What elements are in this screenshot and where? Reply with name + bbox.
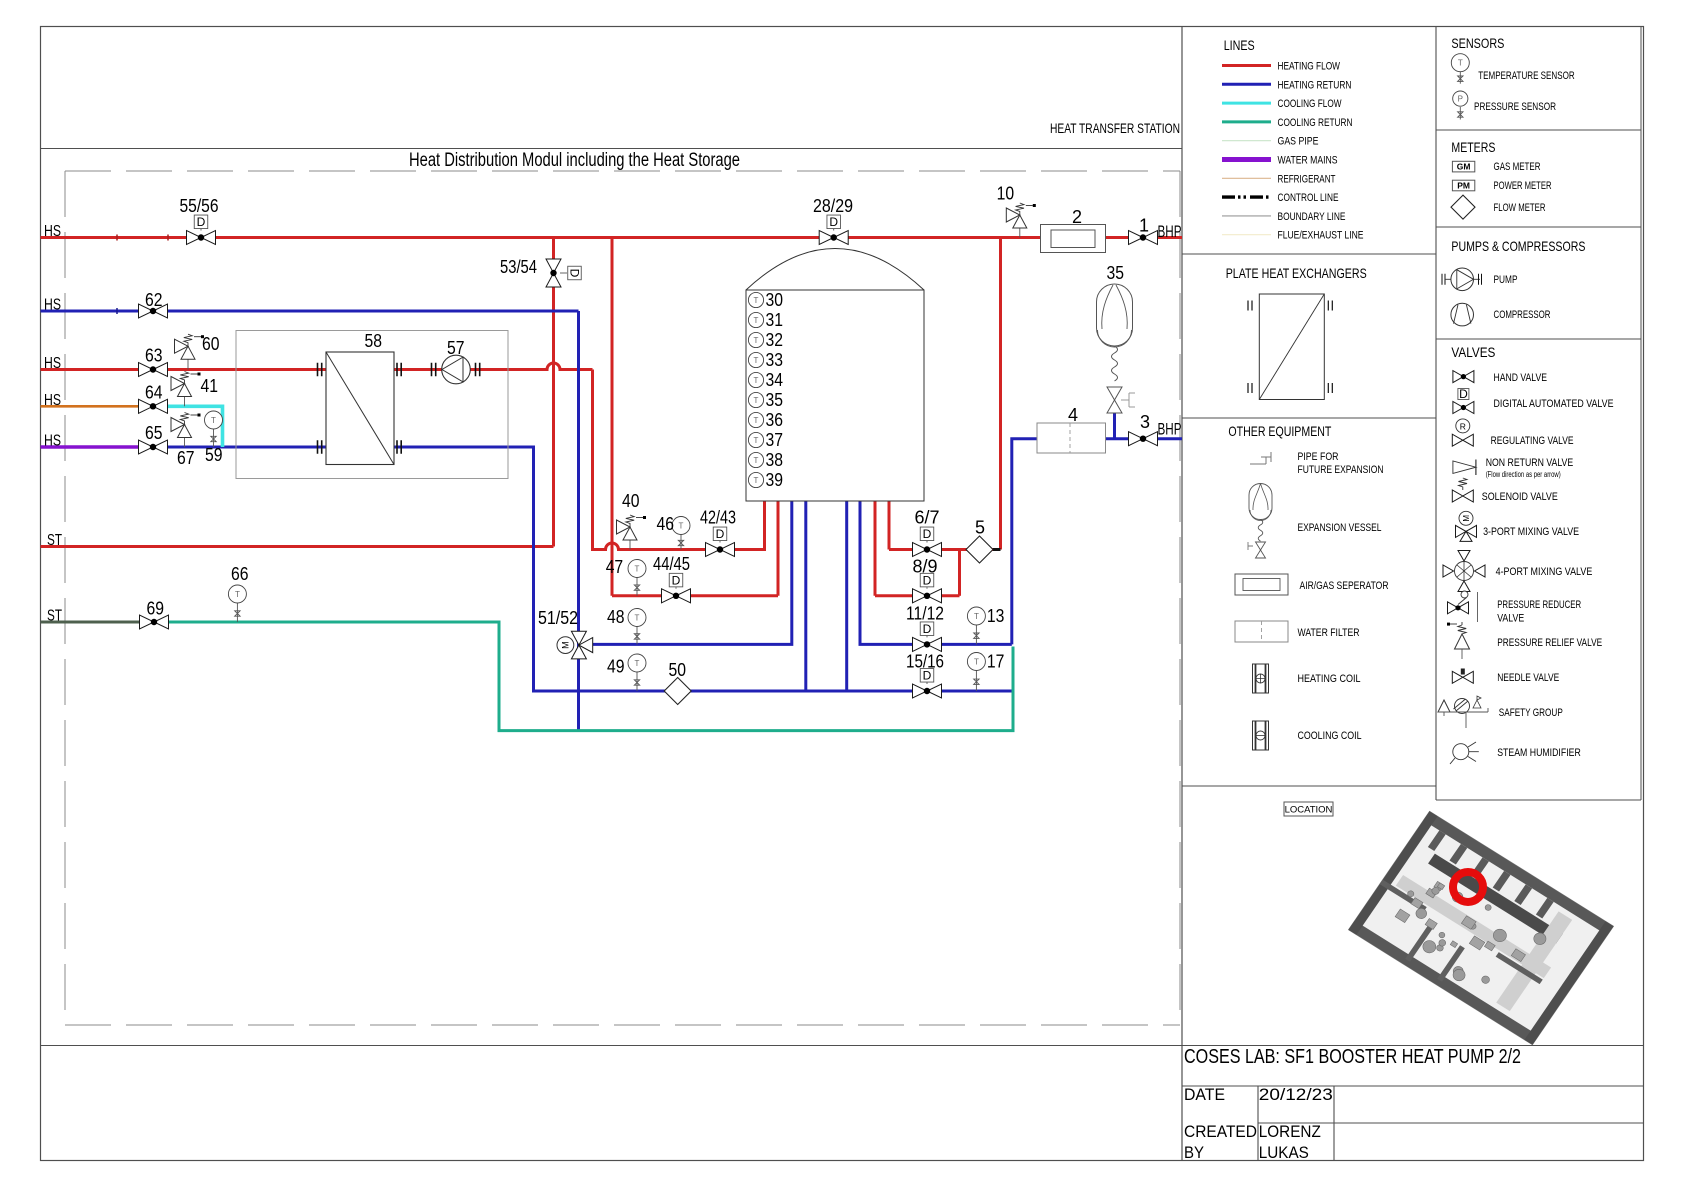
svg-text:PLATE HEAT EXCHANGERS: PLATE HEAT EXCHANGERS (1226, 265, 1367, 281)
svg-text:33: 33 (766, 350, 784, 370)
svg-text:28/29: 28/29 (813, 196, 853, 216)
svg-text:T: T (211, 416, 216, 425)
svg-text:COOLING FLOW: COOLING FLOW (1278, 98, 1342, 110)
svg-text:65: 65 (145, 423, 163, 443)
svg-text:SENSORS: SENSORS (1451, 35, 1504, 51)
svg-text:T: T (754, 476, 759, 485)
svg-text:COMPRESSOR: COMPRESSOR (1494, 309, 1551, 321)
svg-text:46: 46 (657, 514, 675, 534)
svg-text:66: 66 (231, 564, 249, 584)
svg-text:SOLENOID VALVE: SOLENOID VALVE (1482, 491, 1558, 503)
svg-text:57: 57 (447, 338, 465, 358)
svg-text:VALVES: VALVES (1451, 344, 1495, 360)
svg-text:64: 64 (145, 383, 163, 403)
svg-text:(Flow direction as per arrow): (Flow direction as per arrow) (1486, 470, 1561, 479)
svg-text:HEATING COIL: HEATING COIL (1298, 673, 1361, 685)
svg-text:35: 35 (1107, 263, 1125, 283)
svg-text:20/12/23: 20/12/23 (1259, 1085, 1333, 1104)
svg-text:47: 47 (606, 557, 624, 577)
svg-text:T: T (754, 336, 759, 345)
svg-text:34: 34 (766, 370, 784, 390)
svg-text:GAS PIPE: GAS PIPE (1278, 136, 1319, 148)
svg-text:COSES LAB: SF1 BOOSTER HEAT PU: COSES LAB: SF1 BOOSTER HEAT PUMP 2/2 (1184, 1046, 1521, 1068)
svg-text:D: D (567, 269, 581, 278)
svg-text:38: 38 (766, 450, 784, 470)
svg-text:BY: BY (1184, 1143, 1204, 1162)
svg-text:PRESSURE REDUCER: PRESSURE REDUCER (1497, 599, 1581, 611)
svg-text:LINES: LINES (1224, 37, 1255, 53)
svg-text:2: 2 (1072, 207, 1082, 227)
svg-text:T: T (754, 456, 759, 465)
svg-text:P: P (1458, 95, 1463, 104)
svg-text:PM: PM (1457, 181, 1470, 191)
svg-text:T: T (754, 376, 759, 385)
svg-text:HS: HS (44, 355, 61, 372)
svg-text:BOUNDARY LINE: BOUNDARY LINE (1278, 211, 1346, 223)
svg-text:PUMPS & COMPRESSORS: PUMPS & COMPRESSORS (1451, 238, 1585, 254)
svg-text:41: 41 (201, 376, 219, 396)
svg-text:36: 36 (766, 410, 784, 430)
svg-text:T: T (754, 296, 759, 305)
svg-text:GAS METER: GAS METER (1494, 161, 1541, 173)
svg-text:HAND VALVE: HAND VALVE (1494, 372, 1548, 384)
svg-text:37: 37 (766, 430, 784, 450)
svg-text:T: T (974, 612, 979, 621)
svg-text:3-PORT MIXING VALVE: 3-PORT MIXING VALVE (1483, 526, 1579, 538)
svg-text:50: 50 (669, 660, 687, 680)
svg-text:M: M (560, 641, 570, 649)
svg-text:COOLING COIL: COOLING COIL (1298, 730, 1362, 742)
svg-text:T: T (635, 565, 640, 574)
svg-text:D: D (923, 527, 932, 541)
svg-text:ST: ST (47, 532, 62, 549)
svg-text:T: T (754, 356, 759, 365)
svg-text:PUMP: PUMP (1494, 274, 1518, 286)
svg-text:SAFETY GROUP: SAFETY GROUP (1499, 707, 1563, 719)
svg-text:48: 48 (607, 607, 625, 627)
svg-text:HS: HS (44, 392, 61, 409)
svg-text:D: D (1459, 387, 1468, 401)
svg-text:53/54: 53/54 (500, 257, 537, 277)
svg-text:11/12: 11/12 (906, 604, 944, 624)
svg-text:HS: HS (44, 433, 61, 450)
svg-text:BHP: BHP (1158, 222, 1182, 241)
svg-text:10: 10 (997, 184, 1015, 204)
svg-text:D: D (197, 215, 206, 229)
svg-text:D: D (672, 573, 681, 587)
svg-text:LOCATION: LOCATION (1285, 805, 1333, 816)
svg-text:D: D (829, 215, 838, 229)
svg-text:31: 31 (766, 310, 784, 330)
svg-text:DIGITAL AUTOMATED VALVE: DIGITAL AUTOMATED VALVE (1494, 398, 1614, 410)
svg-text:CONTROL LINE: CONTROL LINE (1278, 192, 1339, 204)
svg-text:WATER FILTER: WATER FILTER (1298, 627, 1360, 639)
svg-text:8/9: 8/9 (913, 557, 938, 577)
svg-text:13: 13 (987, 606, 1005, 626)
svg-text:HEAT TRANSFER STATION: HEAT TRANSFER STATION (1050, 120, 1180, 136)
svg-text:51/52: 51/52 (538, 608, 578, 628)
svg-text:R: R (1460, 421, 1466, 431)
svg-text:PIPE FOR: PIPE FOR (1298, 451, 1339, 463)
svg-text:HEATING FLOW: HEATING FLOW (1278, 61, 1341, 73)
svg-text:FLUE/EXHAUST LINE: FLUE/EXHAUST LINE (1278, 230, 1364, 242)
svg-text:POWER METER: POWER METER (1494, 180, 1552, 192)
svg-text:D: D (716, 527, 725, 541)
svg-text:GM: GM (1457, 162, 1471, 172)
svg-text:HS: HS (44, 223, 61, 240)
svg-text:17: 17 (987, 652, 1005, 672)
svg-text:M: M (1462, 515, 1471, 522)
svg-text:AIR/GAS SEPERATOR: AIR/GAS SEPERATOR (1300, 580, 1389, 592)
svg-text:HS: HS (44, 297, 61, 314)
svg-text:REGULATING VALVE: REGULATING VALVE (1491, 435, 1574, 447)
svg-text:T: T (754, 416, 759, 425)
svg-text:LORENZ: LORENZ (1259, 1122, 1321, 1141)
svg-text:39: 39 (766, 470, 784, 490)
svg-text:49: 49 (607, 657, 625, 677)
svg-text:TEMPERATURE SENSOR: TEMPERATURE SENSOR (1478, 70, 1575, 82)
svg-text:DATE: DATE (1184, 1085, 1225, 1104)
svg-text:COOLING RETURN: COOLING RETURN (1278, 117, 1353, 129)
svg-text:32: 32 (766, 330, 784, 350)
svg-text:FLOW METER: FLOW METER (1494, 202, 1546, 214)
svg-text:METERS: METERS (1451, 139, 1495, 155)
svg-text:HEATING RETURN: HEATING RETURN (1278, 79, 1352, 91)
svg-text:6/7: 6/7 (915, 508, 940, 528)
svg-text:VALVE: VALVE (1497, 613, 1524, 625)
svg-text:BHP: BHP (1158, 420, 1182, 439)
svg-text:Heat Distribution Modul includ: Heat Distribution Modul including the He… (409, 150, 740, 171)
svg-text:T: T (754, 436, 759, 445)
svg-text:PRESSURE RELIEF VALVE: PRESSURE RELIEF VALVE (1497, 637, 1602, 649)
svg-text:FUTURE EXPANSION: FUTURE EXPANSION (1298, 464, 1384, 476)
svg-text:CREATED: CREATED (1184, 1122, 1257, 1141)
svg-text:NON RETURN VALVE: NON RETURN VALVE (1486, 457, 1574, 469)
svg-text:59: 59 (205, 445, 223, 465)
svg-text:69: 69 (147, 599, 165, 619)
svg-text:PRESSURE SENSOR: PRESSURE SENSOR (1474, 101, 1556, 113)
svg-text:REFRIGERANT: REFRIGERANT (1278, 173, 1336, 185)
svg-text:44/45: 44/45 (653, 554, 690, 574)
svg-text:55/56: 55/56 (180, 196, 219, 216)
svg-text:T: T (235, 590, 240, 599)
svg-text:T: T (1458, 59, 1463, 68)
svg-text:T: T (679, 522, 684, 531)
svg-text:67: 67 (177, 448, 195, 468)
svg-text:4-PORT MIXING VALVE: 4-PORT MIXING VALVE (1496, 566, 1593, 578)
svg-text:LUKAS: LUKAS (1259, 1143, 1309, 1162)
svg-text:EXPANSION VESSEL: EXPANSION VESSEL (1298, 522, 1382, 534)
svg-text:T: T (635, 659, 640, 668)
svg-text:ST: ST (47, 608, 62, 625)
svg-text:T: T (754, 396, 759, 405)
svg-text:3: 3 (1140, 412, 1150, 432)
svg-text:60: 60 (202, 334, 220, 354)
svg-text:15/16: 15/16 (906, 652, 944, 672)
svg-text:D: D (923, 622, 932, 636)
svg-text:NEEDLE VALVE: NEEDLE VALVE (1497, 672, 1559, 684)
svg-text:5: 5 (975, 518, 985, 538)
svg-text:1: 1 (1139, 216, 1149, 236)
svg-text:58: 58 (365, 331, 383, 351)
svg-text:63: 63 (145, 346, 163, 366)
svg-text:STEAM HUMIDIFIER: STEAM HUMIDIFIER (1497, 747, 1581, 759)
svg-text:T: T (754, 316, 759, 325)
svg-text:OTHER EQUIPMENT: OTHER EQUIPMENT (1228, 423, 1331, 439)
svg-text:T: T (974, 658, 979, 667)
svg-text:WATER MAINS: WATER MAINS (1278, 155, 1338, 167)
svg-text:4: 4 (1068, 405, 1078, 425)
svg-text:T: T (635, 614, 640, 623)
svg-text:30: 30 (766, 290, 784, 310)
svg-text:62: 62 (145, 290, 163, 310)
svg-text:42/43: 42/43 (700, 508, 736, 528)
svg-text:35: 35 (766, 390, 784, 410)
svg-text:40: 40 (622, 491, 640, 511)
